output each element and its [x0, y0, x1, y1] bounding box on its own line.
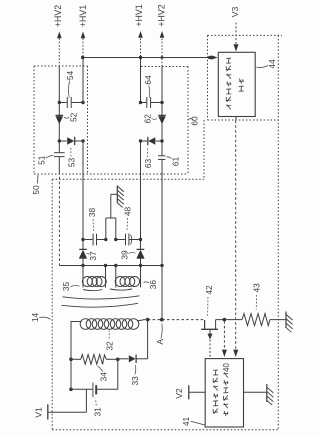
node x1/y103: [58, 101, 61, 104]
wire battery row: [71, 388, 118, 390]
dashed box 60: [141, 67, 188, 175]
label 35: [61, 282, 80, 292]
svg-text:37: 37: [88, 251, 98, 261]
terminal V2: [189, 385, 205, 399]
label feedback text: [226, 58, 231, 109]
svg-text:+HV2: +HV2: [53, 5, 63, 27]
node x3/y58: [139, 56, 142, 59]
svg-text:34: 34: [99, 372, 109, 382]
transistor 42: [201, 320, 218, 358]
ground right of resistor 43: [286, 312, 293, 333]
terminal arrow +HV1 left: [81, 32, 86, 39]
node y58 at dashed box 44 edge: [208, 56, 212, 60]
node x1/y141: [58, 139, 61, 142]
svg-text:39: 39: [120, 250, 130, 260]
wire secondary winding risers: [83, 266, 141, 288]
node x2/y141: [81, 139, 84, 142]
label 51: [37, 155, 54, 165]
node y240 left riser: [104, 238, 107, 241]
wire x117 drop: [117, 359, 119, 389]
resistor 43: [242, 314, 286, 326]
diode 62: [158, 115, 166, 124]
svg-text:63: 63: [143, 159, 153, 169]
svg-text:51: 51: [37, 155, 47, 165]
capacitor 61: [158, 156, 165, 160]
wire x3 inside boxes down: [140, 141, 142, 249]
wire feedback output drop: [235, 117, 237, 351]
controller box 40: [205, 359, 243, 427]
svg-text:V3: V3: [230, 7, 240, 18]
label 32: [104, 331, 114, 351]
diode 37: [79, 249, 87, 258]
svg-text:50: 50: [31, 185, 41, 195]
svg-text:48: 48: [122, 207, 132, 217]
dashed box 50: [34, 66, 188, 174]
battery 31: [93, 382, 96, 397]
arrow into feedback box: [211, 55, 218, 60]
svg-text:33: 33: [130, 376, 140, 386]
label 60: [189, 116, 200, 126]
terminal V3: [235, 23, 237, 46]
inductor 32 primary winding: [80, 319, 139, 330]
wire y103 box50: [59, 102, 83, 104]
wire x4 mid: [161, 103, 163, 156]
feedback circuit box: [218, 52, 255, 116]
label 36: [144, 280, 158, 290]
arrow into controller right: [233, 350, 238, 357]
inductor 35 secondary winding left: [82, 277, 106, 287]
ground 46: [117, 186, 124, 208]
label 63: [143, 148, 153, 169]
node x2/y58: [81, 56, 84, 59]
label 52: [64, 112, 78, 122]
terminal arrow +HV2 right: [160, 31, 165, 38]
svg-text:31: 31: [93, 407, 103, 417]
wire node A horizontal (dashed): [143, 319, 204, 321]
label 34: [98, 366, 109, 381]
wire sense drop (dashed): [223, 321, 225, 350]
node x4/y103: [160, 101, 163, 104]
svg-text:61: 61: [171, 157, 181, 167]
capacitor 38: [93, 234, 96, 246]
node bus x4 end: [160, 264, 163, 267]
label 62: [143, 114, 158, 124]
svg-text:A: A: [155, 339, 165, 345]
svg-text:43: 43: [251, 283, 261, 293]
ground at controller right: [267, 384, 274, 405]
inductor 36 secondary winding right: [115, 277, 139, 287]
node A: [160, 318, 164, 322]
node diode33 row: [116, 358, 120, 362]
wire x4 node A drop: [161, 266, 163, 320]
svg-text:53: 53: [66, 158, 76, 168]
wire x2 diode to bus: [82, 258, 84, 265]
svg-text:+HV1: +HV1: [78, 5, 88, 27]
svg-text:41: 41: [181, 417, 191, 427]
label 43: [251, 283, 261, 310]
wire riser x147: [147, 320, 149, 359]
svg-text:36: 36: [148, 280, 158, 290]
wire HV column x2 top: [82, 39, 84, 58]
arrow into controller left: [222, 350, 227, 357]
capacitor 64: [147, 97, 151, 108]
label 64: [143, 75, 153, 97]
diode 52: [56, 115, 64, 124]
wire y103 box60: [141, 102, 163, 104]
svg-text:V2: V2: [174, 388, 184, 399]
arrow V3 into feedback: [234, 44, 239, 51]
node 33-riser junction: [146, 318, 150, 322]
wire diode 33 row: [118, 358, 148, 360]
wire bus y58 to feedback: [83, 57, 212, 59]
svg-text:40: 40: [222, 363, 231, 372]
label 54: [65, 71, 75, 98]
wire y240 right segment: [116, 239, 141, 241]
wire HV column x1 top: [58, 39, 60, 67]
svg-text:14: 14: [30, 313, 40, 323]
wire x1 dashed drop to bus: [58, 172, 60, 266]
node collector junction: [223, 318, 227, 322]
transformer core: [62, 289, 140, 307]
wire HV column x3 top: [140, 39, 142, 58]
wire bus y265: [59, 265, 162, 267]
svg-text:64: 64: [143, 75, 153, 85]
wire y141 box50: [59, 140, 83, 142]
node bus coil1 right: [104, 264, 107, 267]
terminal V1: [48, 389, 87, 419]
wire x2 inside boxes down: [82, 141, 84, 249]
label 61: [166, 157, 180, 167]
dashed outer boundary 14: [52, 35, 278, 429]
wire primary left stub: [71, 321, 82, 323]
node x2/y103: [81, 101, 84, 104]
wire HV column x4 top: [161, 39, 163, 67]
label 48: [122, 207, 132, 232]
label kairo text: [239, 79, 244, 92]
node x3/y240: [139, 238, 142, 241]
svg-text:35: 35: [61, 282, 71, 292]
node resistor34 left: [69, 358, 73, 362]
label 33: [130, 365, 140, 385]
label 39: [120, 250, 136, 260]
node x3/y141: [139, 139, 142, 142]
label 37: [87, 251, 98, 261]
svg-text:32: 32: [104, 341, 114, 351]
svg-text:42: 42: [204, 285, 214, 295]
wire x1 mid: [58, 103, 60, 153]
svg-text:V1: V1: [34, 407, 44, 418]
wire y141 box60: [141, 140, 163, 142]
diode 53: [67, 137, 75, 145]
svg-text:54: 54: [65, 71, 75, 81]
node y240 right riser: [114, 238, 117, 241]
capacitor 54: [67, 97, 71, 108]
node x4 crossing y58: [161, 56, 164, 59]
node bus x2: [81, 264, 84, 267]
label 44: [257, 59, 277, 69]
label 31: [93, 399, 103, 417]
terminal arrow +HV2 left: [57, 32, 62, 39]
wire primary right stub: [138, 319, 144, 322]
node battery row left: [69, 388, 73, 392]
wire controller to ground: [244, 391, 267, 393]
node x3/y103: [139, 101, 142, 104]
svg-text:52: 52: [68, 112, 78, 122]
dashed box 44: [208, 35, 283, 120]
capacitor 48: [126, 234, 132, 246]
capacitor 51: [54, 153, 65, 157]
node bus coil2 left: [114, 264, 117, 267]
node bus x3: [139, 264, 142, 267]
node x2/y240: [81, 238, 84, 241]
node x4/y141: [160, 139, 163, 142]
svg-text:62: 62: [143, 114, 153, 124]
diode 39: [137, 249, 145, 258]
svg-text:60: 60: [190, 116, 200, 126]
label transistor text: [213, 370, 218, 414]
svg-text:38: 38: [87, 208, 97, 218]
svg-text:+HV2: +HV2: [156, 4, 166, 26]
wire ground Y risers: [106, 194, 117, 239]
label controller 40 text: [223, 372, 228, 416]
diode 33: [129, 355, 136, 363]
label 14: [30, 313, 51, 323]
terminal arrow +HV1 right: [138, 31, 143, 38]
label 50: [31, 175, 41, 195]
wire x4 below cap61: [161, 159, 163, 265]
label 42: [204, 285, 214, 316]
wire x1 below cap51: [58, 157, 60, 172]
wire x3 diode to bus: [140, 258, 142, 265]
label 53: [66, 147, 76, 167]
wire y240 left segment: [83, 239, 106, 241]
label A: [155, 324, 165, 345]
svg-text:44: 44: [267, 59, 277, 69]
svg-text:+HV1: +HV1: [134, 4, 144, 26]
resistor 34: [71, 355, 118, 365]
wire left rail x71: [70, 321, 72, 389]
label 41: [181, 417, 205, 427]
diode 63: [148, 137, 156, 145]
wire collector row: [216, 319, 242, 321]
label 38: [87, 208, 97, 232]
